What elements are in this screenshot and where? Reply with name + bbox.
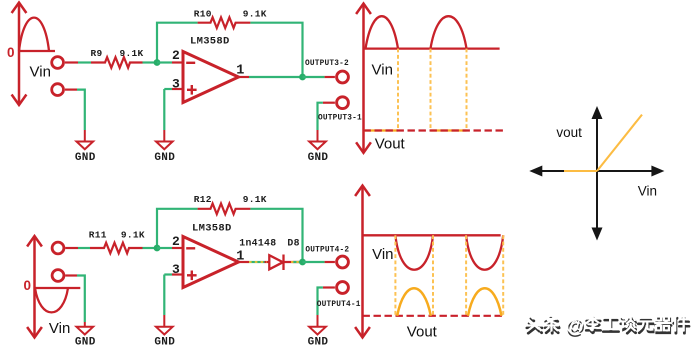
wire node to OUTPUT4-2 terminal — [303, 261, 325, 263]
ground GND (input, top) — [77, 130, 94, 149]
input source axis (bottom) — [27, 236, 42, 338]
wire feedback rail right (bottom, green) — [250, 209, 302, 262]
wire pin1 output (red stub + green) — [239, 76, 250, 78]
wire ground riser pin3 (top) — [163, 89, 165, 130]
terminal OUTPUT4-1 — [337, 282, 349, 294]
watermark 头条 @李工谈元器件 (letterpress style) — [526, 315, 689, 339]
wire green to R9 — [78, 61, 91, 63]
svg-text:9.1K: 9.1K — [243, 9, 267, 20]
node OUTPUT4-2 junction — [299, 259, 306, 266]
terminal Vin- (bottom) — [52, 270, 64, 282]
wire pin2 (bottom) — [157, 247, 172, 249]
svg-text:GND: GND — [154, 152, 175, 164]
Vin baseline (top panel) — [364, 47, 500, 49]
ground GND (OUTPUT4-1) — [309, 315, 326, 335]
wire pin1 output to diode (bottom) — [239, 261, 250, 263]
wire diode to node (bottom) — [284, 261, 303, 263]
svg-text:2: 2 — [172, 234, 180, 249]
svg-text:R11: R11 — [89, 230, 107, 241]
wire green to R11 — [78, 247, 90, 249]
wire ground riser pin3 (bottom) — [163, 275, 165, 316]
wire pin3 (bottom) — [164, 273, 172, 275]
svg-text:Vout: Vout — [375, 136, 406, 153]
svg-text:GND: GND — [75, 152, 96, 164]
wire green R9 to node — [143, 61, 158, 63]
wire feedback rail right (green) — [250, 23, 302, 77]
transfer curve vout=Vin for Vin>0 (yellow) — [597, 115, 642, 171]
svg-text:R9: R9 — [91, 48, 103, 59]
svg-text:GND: GND — [75, 337, 96, 346]
waveform axis (top panel) — [356, 4, 371, 153]
wire from Vin- to ground (top) — [65, 88, 77, 90]
wire from Vin- to ground (bottom) — [65, 274, 77, 276]
transfer graph horizontal axis — [529, 166, 664, 177]
Vout zero dashed line (top panel) — [364, 129, 506, 131]
wire green R11 to node — [143, 247, 158, 249]
ground GND (op-amp pin3, bottom) — [156, 315, 173, 335]
svg-text:OUTPUT4-2: OUTPUT4-2 — [305, 247, 349, 255]
terminal Vin+ (top) — [52, 57, 64, 69]
svg-text:OUTPUT3-1: OUTPUT3-1 — [318, 115, 362, 123]
svg-text:GND: GND — [154, 337, 175, 346]
diode D8 (1n4148) — [269, 255, 283, 271]
svg-text:R12: R12 — [194, 194, 212, 205]
ground GND (OUTPUT3-1) — [309, 130, 326, 149]
svg-text:3: 3 — [172, 262, 180, 277]
Vin half-sine humps (top panel) — [366, 16, 467, 48]
Vin baseline (bottom panel) — [363, 234, 501, 236]
svg-text:9.1K: 9.1K — [120, 48, 144, 59]
wire OUTPUT4-1 to ground — [323, 286, 335, 288]
node junction R11/R12/pin2 (bottom) — [154, 245, 161, 252]
input source axis (top) — [12, 3, 27, 106]
svg-text:R10: R10 — [194, 9, 212, 20]
Vout yellow half-sine humps (bottom panel) — [397, 288, 501, 316]
svg-text:Vin: Vin — [372, 62, 393, 79]
svg-text:OUTPUT4-1: OUTPUT4-1 — [317, 301, 361, 309]
node OUTPUT3-2 junction — [299, 74, 306, 81]
resistor R12 — [198, 204, 251, 215]
svg-text:GND: GND — [308, 337, 329, 346]
dashed vertical markers (bottom panel) — [395, 235, 503, 315]
wire red stub from Vin+ — [65, 61, 78, 63]
terminal OUTPUT4-2 — [337, 256, 349, 268]
Vin negative half-sine (bottom source) — [35, 288, 68, 312]
wire feedback rail left (green) — [157, 23, 198, 63]
transfer curve vout=0 for Vin<0 (yellow) — [564, 170, 597, 172]
terminal Vin- (top) — [52, 84, 64, 96]
Vout dashed zero line (bottom panel) — [363, 315, 505, 317]
Vin negative half-sine humps (bottom panel) — [395, 235, 503, 269]
node Vin zero baseline (top source) — [19, 50, 55, 52]
wire pin2 (green+red stub) — [157, 61, 172, 63]
ground GND (input, bottom) — [77, 322, 94, 335]
svg-text:Vout: Vout — [407, 324, 438, 341]
svg-text:D8: D8 — [287, 238, 299, 249]
wire pin3 (green+red stub) — [164, 88, 172, 90]
svg-text:Vin: Vin — [372, 246, 393, 263]
svg-text:LM358D: LM358D — [190, 36, 230, 48]
inverting input minus (top) — [186, 62, 195, 64]
inverting input minus (bottom) — [186, 247, 195, 249]
svg-text:vout: vout — [556, 125, 582, 140]
svg-text:9.1K: 9.1K — [243, 194, 267, 205]
non-inverting plus (top) — [187, 85, 197, 95]
svg-text:GND: GND — [308, 152, 329, 164]
wire OUTPUT3-1 to ground — [323, 102, 335, 104]
terminal Vin+ (bottom) — [52, 242, 64, 254]
svg-text:0: 0 — [7, 45, 15, 60]
dashed vertical markers (top panel) — [398, 49, 467, 131]
node junction R9/R10/pin2 — [154, 59, 161, 66]
ground GND (op-amp pin3, top) — [156, 130, 173, 149]
wire node to OUTPUT3-2 terminal — [303, 76, 325, 78]
terminal OUTPUT3-1 — [337, 97, 349, 109]
svg-text:0: 0 — [24, 278, 32, 293]
svg-text:@: @ — [566, 315, 585, 336]
yellow zero-output underlay segments — [364, 129, 467, 131]
svg-text:9.1K: 9.1K — [121, 230, 145, 241]
svg-text:Vin: Vin — [30, 64, 51, 81]
resistor R10 — [198, 17, 251, 28]
svg-text:1n4148: 1n4148 — [239, 238, 276, 249]
Vin positive half-sine (top source) — [19, 18, 49, 51]
terminal OUTPUT3-2 — [337, 71, 349, 83]
transfer graph vertical axis — [592, 106, 603, 241]
svg-text:Vin: Vin — [49, 320, 70, 337]
op-amp U3 LM358D (top) — [183, 52, 239, 103]
waveform axis (bottom panel) — [355, 186, 370, 338]
op-amp U4 LM358D (bottom) — [183, 237, 239, 288]
wire red stub from Vin+ (bottom) — [65, 247, 78, 249]
svg-text:LM358D: LM358D — [192, 223, 232, 235]
resistor R9 — [91, 57, 143, 68]
svg-text:3: 3 — [172, 76, 180, 91]
non-inverting plus (bottom) — [187, 271, 197, 281]
svg-text:Vin: Vin — [638, 184, 657, 199]
svg-text:2: 2 — [172, 48, 180, 63]
node Vin zero baseline (bottom source) — [35, 287, 81, 289]
resistor R11 — [90, 243, 143, 254]
svg-text:OUTPUT3-2: OUTPUT3-2 — [305, 60, 349, 68]
wire feedback rail left (bottom, green) — [157, 209, 198, 248]
